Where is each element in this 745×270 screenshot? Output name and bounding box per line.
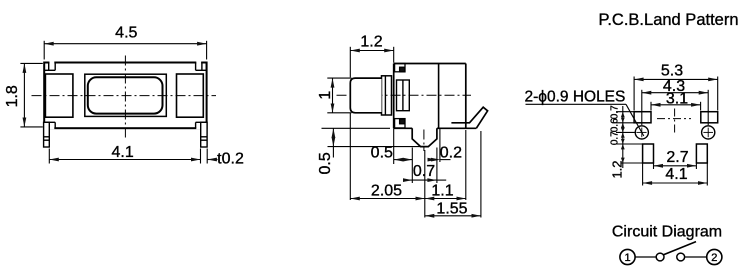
svg-text:4.5: 4.5 xyxy=(115,25,137,42)
svg-text:t0.2: t0.2 xyxy=(217,151,244,168)
svg-text:0.6: 0.6 xyxy=(610,118,621,132)
svg-text:0.7: 0.7 xyxy=(610,105,621,119)
svg-text:0.5: 0.5 xyxy=(371,145,393,162)
svg-text:0.5: 0.5 xyxy=(317,152,334,174)
svg-text:4.1: 4.1 xyxy=(665,166,687,183)
svg-text:3.1: 3.1 xyxy=(666,91,688,108)
svg-text:1.55: 1.55 xyxy=(436,201,467,218)
svg-text:5.3: 5.3 xyxy=(661,63,683,80)
svg-text:4.1: 4.1 xyxy=(111,144,133,161)
svg-text:Circuit Diagram: Circuit Diagram xyxy=(612,223,722,240)
svg-text:2.05: 2.05 xyxy=(371,182,402,199)
svg-text:2.7: 2.7 xyxy=(666,149,688,166)
svg-text:1.2: 1.2 xyxy=(360,34,382,51)
svg-text:1.8: 1.8 xyxy=(4,85,21,107)
svg-text:1: 1 xyxy=(624,252,630,264)
svg-text:P.C.B.Land Pattern: P.C.B.Land Pattern xyxy=(598,11,738,29)
svg-text:1: 1 xyxy=(317,91,334,100)
svg-text:0.7: 0.7 xyxy=(413,163,435,180)
svg-text:1.1: 1.1 xyxy=(431,182,453,199)
svg-text:2-ϕ0.9 HOLES: 2-ϕ0.9 HOLES xyxy=(525,89,626,106)
svg-text:2: 2 xyxy=(711,252,717,264)
svg-text:0.2: 0.2 xyxy=(440,145,462,162)
svg-text:0.7: 0.7 xyxy=(610,131,621,145)
svg-text:1.2: 1.2 xyxy=(610,160,625,178)
